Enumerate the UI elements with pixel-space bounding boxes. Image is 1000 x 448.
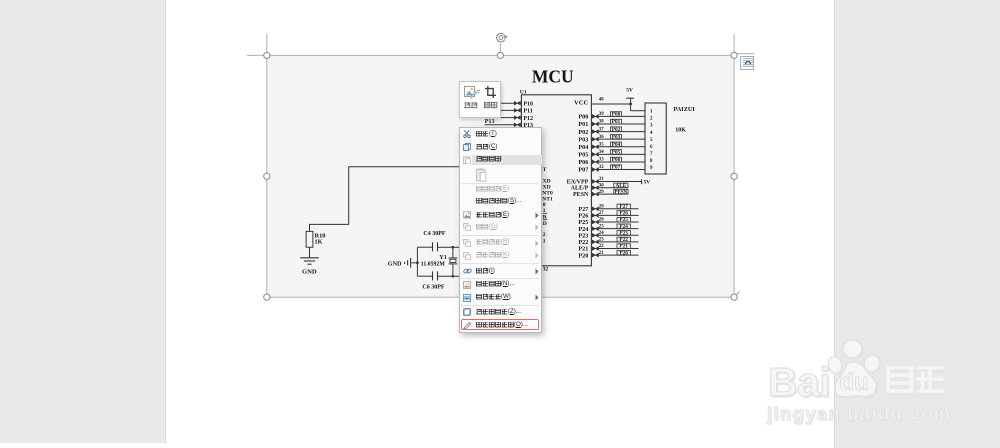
svg-text:1: 1: [543, 238, 546, 244]
svg-text:P13: P13: [485, 118, 495, 125]
svg-text:4: 4: [650, 131, 653, 136]
svg-text:ALE/P: ALE/P: [571, 186, 589, 192]
svg-text:P03: P03: [578, 136, 588, 143]
svg-text:36: 36: [599, 135, 604, 140]
svg-text:6: 6: [650, 145, 653, 150]
svg-text:1: 1: [650, 110, 653, 115]
svg-text:9: 9: [650, 166, 653, 171]
svg-text:31: 31: [599, 177, 604, 182]
svg-text:2: 2: [650, 117, 653, 122]
svg-text:32: 32: [599, 165, 604, 170]
svg-text:10K: 10K: [675, 127, 686, 133]
svg-text:P22: P22: [619, 237, 628, 243]
svg-text:3: 3: [650, 124, 653, 129]
svg-text:PESN: PESN: [573, 192, 589, 198]
svg-text:P00: P00: [578, 114, 588, 121]
svg-text:Y1: Y1: [439, 255, 446, 261]
svg-text:PESN: PESN: [615, 191, 628, 196]
svg-text:P10: P10: [523, 101, 533, 107]
svg-text:P06: P06: [578, 159, 588, 166]
svg-text:23: 23: [599, 238, 604, 243]
svg-text:T: T: [543, 167, 547, 173]
svg-text:39: 39: [599, 112, 604, 117]
svg-text:38: 38: [599, 120, 604, 125]
svg-text:P02: P02: [578, 129, 588, 136]
svg-text:P26: P26: [619, 211, 628, 217]
svg-text:P25: P25: [619, 217, 628, 223]
svg-text:35: 35: [599, 142, 604, 147]
svg-text:P21: P21: [619, 244, 628, 250]
svg-text:8: 8: [650, 159, 653, 164]
svg-text:30: 30: [599, 183, 604, 188]
svg-text:5V: 5V: [626, 87, 633, 93]
svg-text:25: 25: [599, 224, 604, 229]
svg-text:37: 37: [599, 127, 604, 132]
svg-text:P03: P03: [612, 134, 621, 140]
svg-text:40: 40: [599, 98, 604, 103]
svg-text:34: 34: [599, 150, 604, 155]
svg-text:P07: P07: [612, 165, 621, 171]
svg-text:P04: P04: [612, 142, 621, 148]
svg-text:P00: P00: [612, 112, 621, 118]
svg-text:P20: P20: [619, 250, 628, 256]
svg-text:P24: P24: [619, 224, 628, 230]
svg-text:P02: P02: [612, 127, 621, 133]
svg-text:VCC: VCC: [574, 100, 589, 107]
svg-text:P04: P04: [578, 144, 588, 151]
svg-text:26: 26: [599, 218, 604, 223]
svg-text:P12: P12: [523, 116, 533, 122]
svg-text:P20: P20: [578, 252, 588, 259]
svg-text:EA/VPP: EA/VPP: [567, 180, 589, 186]
svg-text:P11: P11: [523, 109, 532, 115]
svg-text:28: 28: [599, 205, 604, 210]
svg-text:C4 30PF: C4 30PF: [423, 231, 445, 237]
svg-text:7: 7: [650, 152, 653, 157]
svg-text:33: 33: [599, 158, 604, 163]
svg-text:24: 24: [599, 231, 604, 236]
svg-text:22: 22: [599, 244, 604, 249]
svg-text:PAIZUI: PAIZUI: [674, 106, 696, 113]
svg-text:P01: P01: [612, 119, 621, 125]
svg-text:D: D: [543, 221, 547, 227]
svg-text:11.0592M: 11.0592M: [421, 262, 446, 268]
svg-text:P01: P01: [578, 121, 588, 128]
svg-text:P23: P23: [619, 230, 628, 236]
svg-text:P07: P07: [578, 167, 588, 174]
svg-text:ALE: ALE: [615, 183, 626, 189]
svg-text:C6 30PF: C6 30PF: [422, 285, 444, 291]
svg-text:29: 29: [599, 190, 604, 195]
svg-text:5: 5: [650, 138, 653, 143]
svg-text:P06: P06: [612, 157, 621, 163]
svg-text:27: 27: [599, 211, 604, 216]
svg-text:MCU: MCU: [532, 66, 574, 86]
svg-text:P27: P27: [619, 204, 628, 210]
svg-text:32: 32: [543, 267, 549, 273]
svg-text:GND: GND: [302, 269, 317, 276]
svg-text:GND: GND: [388, 261, 402, 268]
svg-text:21: 21: [599, 251, 604, 256]
svg-text:2: 2: [543, 232, 546, 238]
svg-text:1K: 1K: [315, 238, 323, 245]
svg-text:P05: P05: [578, 152, 588, 159]
svg-text:P05: P05: [612, 150, 621, 156]
svg-text:5V: 5V: [644, 180, 651, 186]
